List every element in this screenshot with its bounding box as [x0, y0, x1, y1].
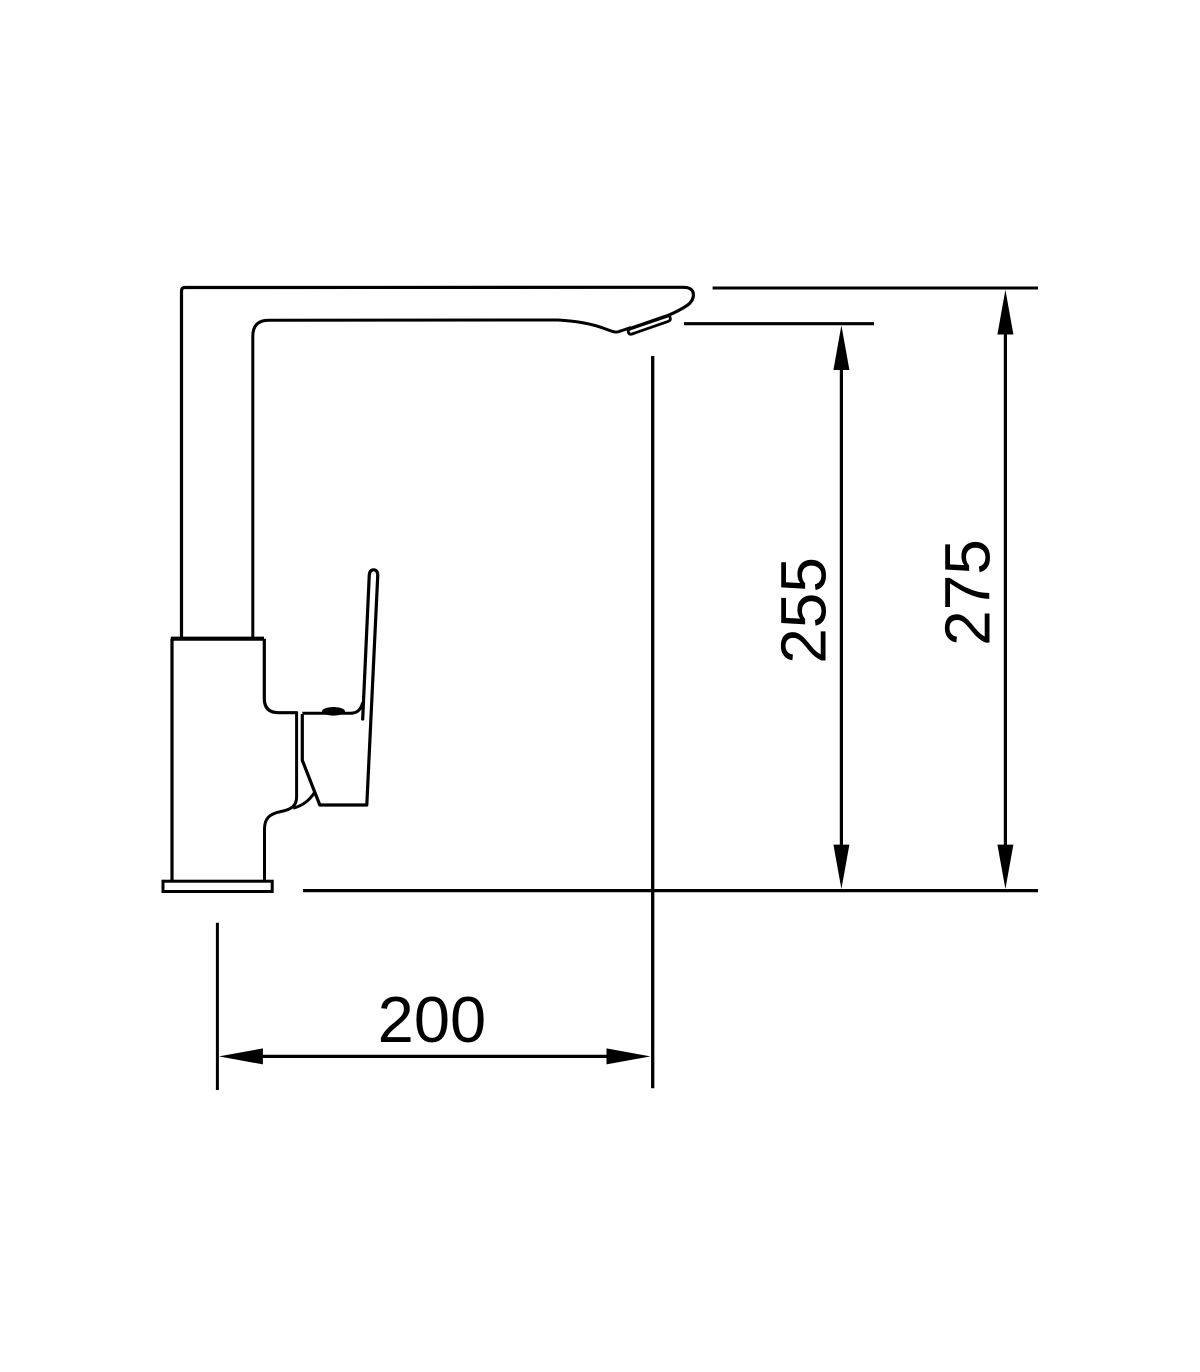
svg-text:200: 200: [378, 983, 486, 1056]
arrow 255 top: [833, 325, 849, 370]
body top bar: [171, 637, 264, 641]
arrow 275 top: [997, 290, 1013, 335]
handle seat line: [302, 703, 362, 714]
dimension line 275: [1004, 333, 1007, 846]
body neck S-curve: [265, 712, 297, 881]
svg-text:255: 255: [768, 557, 840, 664]
arrow 200 right: [607, 1048, 651, 1064]
arrow 255 bottom: [833, 845, 849, 889]
dimension line 255: [840, 368, 843, 846]
neck recess arc: [293, 793, 314, 809]
handle lever: [363, 570, 378, 805]
top reference line (275): [713, 287, 1038, 290]
base reference line: [303, 889, 1038, 892]
base flange: [163, 881, 272, 891]
arrow 200 left: [219, 1048, 263, 1064]
body left edge: [170, 639, 173, 881]
arrow 275 bottom: [997, 845, 1013, 889]
svg-text:275: 275: [931, 539, 1003, 646]
spout inner line: [253, 320, 631, 637]
spout outer outline: [182, 287, 694, 637]
cartridge dot: [322, 707, 345, 716]
aerator: [628, 316, 670, 334]
left extension line (200): [216, 923, 219, 1090]
dimension line 200: [261, 1055, 608, 1058]
center line through spout tip: [651, 356, 654, 1088]
body right edge and ledge: [264, 639, 297, 713]
handle lower body: [302, 714, 367, 805]
spout outlet reference line (255): [684, 322, 874, 325]
